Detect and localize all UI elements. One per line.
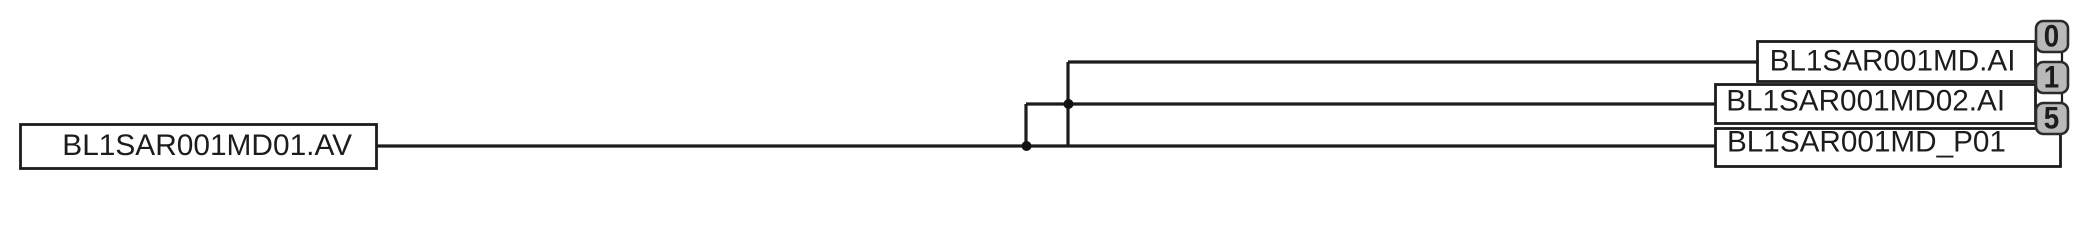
svg-text:BL1SAR001MD_P01: BL1SAR001MD_P01 (1727, 126, 2006, 159)
junction dot at x=1068 on W2 (1064, 99, 1074, 109)
svg-text:5: 5 (2044, 101, 2059, 136)
wire V1 vertical branch at x=1026 (1024, 104, 1027, 146)
connector badge0-badge1 (2061, 50, 2063, 63)
svg-text:1: 1 (2044, 60, 2059, 95)
badge 0 (2036, 19, 2068, 54)
badge 5 (2036, 101, 2068, 136)
svg-text:BL1SAR001MD02.AI: BL1SAR001MD02.AI (1726, 85, 2005, 118)
wire W1 from BL1SAR001MD01.AV to BL1SAR001MD_P01 (376, 144, 1716, 147)
wire W2 middle branch to BL1SAR001MD02.AI (1026, 102, 1716, 105)
box BL1SAR001MD02.AI (1716, 85, 2036, 124)
box BL1SAR001MD_P01 (1716, 129, 2061, 167)
svg-text:0: 0 (2044, 19, 2059, 54)
junction dot at x=1026 on W1 (1022, 141, 1032, 151)
svg-text:BL1SAR001MD.AI: BL1SAR001MD.AI (1770, 45, 2016, 78)
box BL1SAR001MD01.AV (21, 125, 377, 169)
connector badge1-badge5 (2061, 92, 2063, 104)
box BL1SAR001MD.AI (1758, 42, 2036, 82)
wire W3 top branch to BL1SAR001MD.AI (1068, 60, 1758, 63)
svg-text:BL1SAR001MD01.AV: BL1SAR001MD01.AV (62, 129, 352, 162)
wire V2 vertical branch at x=1068 (1066, 62, 1069, 146)
badge 1 (2036, 60, 2068, 95)
